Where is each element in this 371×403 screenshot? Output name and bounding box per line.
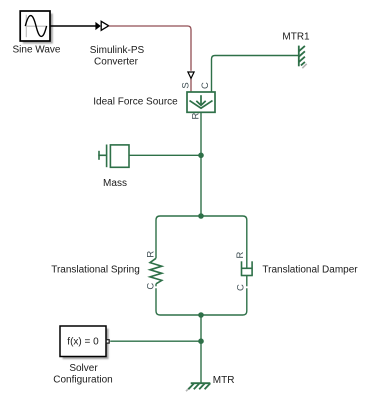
arrowhead into port S: [188, 72, 194, 78]
junction node C bottom of parallel branch: [198, 312, 204, 318]
converter Simulink-PS Converter: [101, 21, 109, 30]
block Solver Configuration: [60, 326, 109, 359]
svg-text:Translational Damper: Translational Damper: [262, 264, 358, 275]
reference MTR1: [299, 46, 307, 69]
svg-text:Translational Spring: Translational Spring: [51, 264, 140, 275]
svg-text:C: C: [235, 284, 246, 291]
junction node B top of parallel branch: [198, 213, 204, 219]
svg-text:Solver: Solver: [69, 363, 98, 374]
svg-text:C: C: [200, 82, 211, 89]
svg-text:C: C: [145, 283, 156, 290]
spring Translational Spring: [150, 258, 162, 284]
signal wire Sine Wave to Simulink-PS Converter: [50, 22, 101, 30]
svg-text:f(x) = 0: f(x) = 0: [67, 337, 99, 348]
svg-text:R: R: [145, 251, 156, 258]
conserving wire Ideal Force Source C to MTR1: [212, 56, 299, 93]
svg-text:Mass: Mass: [103, 178, 127, 189]
svg-text:R: R: [235, 251, 246, 258]
svg-text:Configuration: Configuration: [53, 374, 112, 385]
junction node D: [198, 338, 204, 344]
reference MTR: [186, 383, 210, 391]
wire node C to node D: [200, 315, 202, 341]
wire damper C to node C: [201, 276, 247, 316]
wire node B to Translational Spring R: [156, 216, 201, 258]
wire node D to MTR: [200, 341, 202, 383]
damper Translational Damper: [241, 261, 253, 275]
svg-text:Simulink-PS: Simulink-PS: [90, 45, 145, 56]
block Ideal Force Source U1: [187, 92, 215, 112]
junction node A: [198, 153, 204, 159]
wire Mass to node A: [129, 154, 201, 156]
PS wire Converter to Ideal Force Source port S: [109, 26, 191, 92]
svg-text:MTR: MTR: [213, 375, 235, 386]
svg-text:R: R: [190, 112, 201, 119]
wire Ideal Force Source R down to node A: [200, 112, 202, 216]
svg-text:Converter: Converter: [94, 57, 139, 68]
svg-text:S: S: [180, 82, 191, 88]
label Solver Configuration: [53, 363, 112, 386]
wire node B to Translational Damper R: [201, 216, 247, 268]
wire spring C to node C: [156, 284, 201, 315]
label Simulink-PS Converter: [90, 45, 145, 67]
svg-text:Sine Wave: Sine Wave: [13, 45, 61, 56]
wire Solver Configuration to node D: [110, 340, 201, 342]
sine wave source block Sine Wave: [20, 11, 53, 44]
svg-text:MTR1: MTR1: [282, 32, 310, 43]
block Mass: [98, 145, 129, 168]
svg-text:Ideal Force Source: Ideal Force Source: [93, 96, 178, 107]
